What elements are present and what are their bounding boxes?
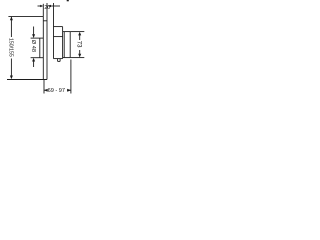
tooth right	[59, 59, 61, 62]
svg-text:20: 20	[44, 5, 50, 11]
dimension D48 upper stem	[33, 27, 35, 35]
body bottom shoulder	[54, 58, 63, 60]
dimension 69-97 left extension line	[43, 80, 45, 94]
dimension 150/155 top extension line	[8, 15, 43, 17]
arrowhead 150/155 down	[10, 76, 13, 80]
dimension 73 bottom extension line	[70, 57, 84, 59]
dimension D48 lower stem	[33, 61, 35, 67]
knob top edge and D48 top extension tick	[31, 37, 44, 39]
dimension 73 top extension line	[70, 31, 84, 33]
dimension 20 left extension (plate front face up)	[42, 4, 44, 17]
body top shoulder	[54, 26, 63, 28]
arrowhead 20 right	[40, 5, 43, 8]
speck artifact top right	[67, 0, 69, 1]
dimension 69-97 line right segment	[67, 89, 71, 91]
dimension 69-97 line left segment	[44, 89, 47, 91]
arrowhead 150/155 up	[10, 17, 13, 21]
tooth left	[57, 59, 59, 62]
body front flange edge / dim 20 right extension	[53, 3, 55, 59]
hub top edge	[63, 31, 71, 33]
arrowhead 69-97 right	[67, 89, 71, 92]
plate top inner edge	[43, 20, 47, 22]
dimension 20 line left segment	[38, 5, 41, 7]
hub inner line	[63, 32, 65, 58]
svg-text:150/155: 150/155	[8, 38, 14, 57]
dimension 20 line right tail	[51, 5, 60, 7]
svg-text:73: 73	[75, 41, 81, 48]
knob front face	[39, 38, 41, 58]
body second shoulder	[54, 36, 63, 38]
plate back face	[46, 3, 48, 80]
dimension 150/155 line lower stem	[10, 59, 12, 77]
hub rear face	[69, 32, 71, 58]
tooth bottom	[58, 60, 61, 62]
svg-text:Ø 48: Ø 48	[30, 40, 36, 52]
arrowhead 73 down	[78, 54, 81, 58]
dimension 150/155 line upper stem	[10, 17, 12, 37]
dimension 73 lower stem	[79, 50, 81, 55]
knob bottom edge and D48 bottom extension tick	[31, 57, 44, 59]
arrowhead D48 down	[32, 34, 35, 38]
arrowhead 69-97 left	[44, 89, 48, 92]
dimension 150/155 bottom extension line / plate bottom edge	[7, 79, 47, 81]
svg-text:69 - 97: 69 - 97	[48, 88, 65, 94]
plate front face	[42, 16, 44, 79]
arrowhead D48 up	[32, 58, 35, 62]
dimension 69-97 right extension line	[70, 60, 72, 94]
arrowhead 73 up	[78, 32, 81, 36]
arrowhead 20 left	[48, 5, 51, 8]
body hub front face	[62, 27, 64, 59]
dimension 73 upper stem	[79, 34, 81, 40]
hub bottom edge	[63, 57, 71, 59]
